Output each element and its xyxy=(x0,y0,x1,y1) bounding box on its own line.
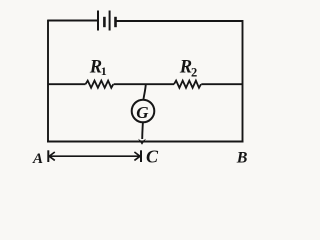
svg-text:A: A xyxy=(32,151,43,167)
dimension tick at C xyxy=(140,150,142,162)
wire middle-right segment xyxy=(201,83,242,85)
wire middle-center segment xyxy=(114,83,174,85)
wire top-right segment xyxy=(116,20,243,22)
resistor R2 xyxy=(174,81,201,88)
svg-text:C: C xyxy=(146,147,159,167)
svg-text:G: G xyxy=(136,103,149,122)
dimension arrow A to C xyxy=(49,152,140,160)
svg-text:1: 1 xyxy=(101,64,107,78)
arrowhead at node C xyxy=(138,139,146,145)
wire left edge xyxy=(47,20,49,143)
wire middle-left segment xyxy=(48,83,86,85)
wire galvanometer to node C xyxy=(141,123,144,140)
svg-text:B: B xyxy=(236,149,248,166)
battery B1 xyxy=(98,11,116,31)
wire bottom (A to B) xyxy=(47,141,244,143)
svg-text:2: 2 xyxy=(191,65,197,79)
wire top-left segment xyxy=(48,20,98,22)
resistor R1 xyxy=(86,81,114,88)
wire right edge xyxy=(242,20,244,142)
dimension tick at A xyxy=(47,150,49,162)
galvanometer U1 circle xyxy=(132,100,155,123)
wire junction to galvanometer xyxy=(144,84,146,99)
